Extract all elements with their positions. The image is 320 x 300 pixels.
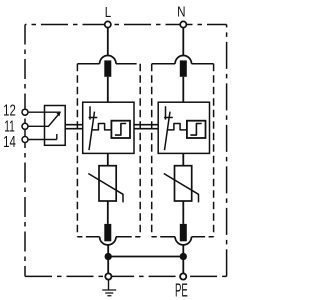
wire RV1 to bottom disconnector F2 bbox=[107, 201, 109, 224]
terminal 12 circle bbox=[22, 109, 28, 115]
bottom disconnector F2 arc bbox=[100, 237, 116, 245]
varistor RV2 diagonal stroke bbox=[164, 174, 199, 203]
U2 fixed electrode bbox=[164, 106, 173, 119]
inner dashed enclosure of N protection path: left edge bbox=[151, 64, 153, 237]
U1 trigger pulse waveform bbox=[91, 124, 111, 130]
terminal PE circle bbox=[180, 273, 186, 279]
mechanical link double line: U1 to U2 bbox=[134, 125, 158, 129]
U1 fixed electrode bbox=[89, 106, 98, 119]
thermal disconnector F1 arc bbox=[100, 56, 116, 64]
triggered spark gap U2 box (N path) bbox=[158, 102, 209, 153]
wire terminal 12 to S1 bbox=[28, 111, 61, 113]
thermal disconnector F3 contact bar bbox=[180, 60, 187, 76]
wire F2 down to earth terminal bbox=[107, 244, 109, 273]
wire joining both earth nodes bbox=[108, 256, 183, 258]
inner dashed enclosure of L protection path: bottom edge bbox=[77, 236, 140, 238]
mechanical link double line: switch to U1 bbox=[65, 125, 83, 129]
terminal 14 circle bbox=[22, 137, 28, 143]
inner dashed enclosure of L protection path: left edge bbox=[76, 64, 78, 237]
thermal disconnector F3 arc bbox=[175, 56, 191, 64]
wire RV2 to bottom disconnector F4 bbox=[182, 201, 184, 224]
outer device boundary dash-dot border top bbox=[25, 24, 227, 26]
earth terminal circle bbox=[105, 273, 111, 279]
U1 trigger electronics box bbox=[111, 121, 130, 138]
wire N terminal down to thermal disconnector F3 bbox=[182, 28, 184, 56]
varistor RV1 diagonal stroke bbox=[88, 174, 123, 203]
wire U1 to varistor RV1 bbox=[107, 153, 109, 165]
outer device boundary dash-dot border bottom bbox=[25, 275, 125, 277]
triggered spark gap U1 box (L path) bbox=[83, 102, 134, 153]
inner dashed enclosure of N protection path: right edge bbox=[213, 64, 215, 237]
U1 switch lever bbox=[89, 112, 95, 151]
terminal N circle bbox=[180, 21, 186, 27]
inner dashed enclosure of L protection path: top edge bbox=[77, 63, 136, 65]
svg-text:L: L bbox=[105, 4, 111, 21]
varistor RV2 body (N path) bbox=[175, 166, 192, 201]
junction node on L earth wire bbox=[105, 253, 112, 260]
svg-text:14: 14 bbox=[3, 134, 16, 151]
remote signalling changeover switch S1 box bbox=[45, 106, 66, 146]
U2 trigger electronics step symbol bbox=[190, 124, 201, 136]
inner dashed enclosure of N protection path: top edge bbox=[152, 63, 214, 65]
ground symbol bbox=[108, 280, 110, 290]
outer device boundary dash-dot border left bbox=[24, 25, 26, 277]
svg-text:PE: PE bbox=[175, 280, 188, 300]
svg-text:N: N bbox=[177, 3, 185, 20]
terminal 11 circle bbox=[22, 123, 28, 129]
U2 switch lever bbox=[165, 112, 171, 151]
terminal L circle bbox=[105, 21, 111, 27]
inner dashed enclosure of N protection path: bottom edge bbox=[152, 236, 214, 238]
outer device boundary dash-dot border right bbox=[226, 25, 228, 277]
S1 lever bbox=[48, 113, 59, 126]
wire F3 to spark gap U2 bbox=[182, 77, 184, 102]
wire terminal 14 to S1 contact bbox=[28, 134, 57, 140]
wire F1 to spark gap U1 bbox=[107, 77, 109, 102]
svg-text:12: 12 bbox=[3, 103, 16, 120]
bottom disconnector F4 contact bar bbox=[180, 224, 187, 241]
bottom disconnector F2 contact bar bbox=[104, 224, 111, 241]
varistor RV1 body (L path) bbox=[99, 166, 116, 201]
bottom disconnector F4 arc bbox=[175, 237, 191, 245]
U2 trigger pulse waveform bbox=[167, 124, 187, 130]
svg-text:11: 11 bbox=[4, 118, 15, 135]
wire terminal 11 to S1 pivot bbox=[28, 125, 48, 127]
U1 trigger electronics step symbol bbox=[115, 124, 126, 136]
U2 trigger electronics box bbox=[187, 121, 206, 138]
S1 lever arrowhead bbox=[56, 112, 60, 116]
thermal disconnector F1 contact bar bbox=[104, 60, 111, 76]
wire F4 down to PE terminal bbox=[182, 244, 184, 273]
inner dashed enclosure of L protection path: right edge bbox=[139, 64, 141, 237]
wire U2 to varistor RV2 bbox=[182, 153, 184, 165]
junction node on N earth wire bbox=[180, 253, 187, 260]
wire L terminal down to thermal disconnector F1 bbox=[107, 28, 109, 56]
